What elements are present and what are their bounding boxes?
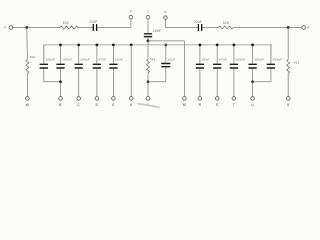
wire F to resistor: [13, 27, 60, 29]
svg-text:630: 630: [63, 21, 69, 25]
svg-text:15nF: 15nF: [153, 29, 161, 33]
terminal H: [302, 26, 310, 30]
wire cap to P corner: [97, 27, 131, 29]
wire N corner to cap: [165, 27, 197, 29]
resistor 6k2: [26, 55, 35, 73]
junction node bus/K: [130, 44, 133, 47]
wire L join to terminal: [147, 82, 149, 97]
svg-text:W: W: [26, 103, 29, 107]
svg-text:5k1: 5k1: [150, 57, 156, 61]
wire 6k2 to terminal W: [26, 73, 28, 96]
svg-text:100nF: 100nF: [273, 58, 283, 62]
capacitor 22nF (right series): [194, 20, 202, 31]
capacitor 47nF: [93, 58, 107, 69]
junction node bus@217.2: [216, 44, 219, 47]
junction node bus/10uF: [164, 44, 167, 47]
terminal T: [232, 97, 236, 107]
svg-text:P: P: [130, 10, 132, 14]
capacitor 22nF (left series): [89, 20, 97, 31]
terminal N: [164, 10, 168, 27]
capacitor 100nF: [267, 58, 283, 69]
resistor 630: [60, 21, 78, 29]
wire cap 100nF down: [270, 69, 272, 82]
capacitor 100nF: [40, 58, 56, 69]
capacitor 10uF: [161, 57, 175, 67]
wire H junction down: [287, 28, 289, 60]
capacitor 47nF: [213, 58, 227, 69]
svg-text:T: T: [233, 103, 235, 107]
junction node bus@233.9: [233, 44, 236, 47]
svg-text:47nF: 47nF: [219, 58, 227, 62]
junction node L join: [147, 80, 150, 83]
svg-text:C: C: [77, 103, 80, 107]
wire join corner from 10uF: [148, 68, 166, 82]
wire join corner from 270.9 to U: [253, 81, 271, 83]
junction node above 4k2: [287, 26, 290, 29]
terminal E: [112, 97, 116, 107]
svg-text:100nF: 100nF: [236, 58, 246, 62]
wire cap 100nF down: [60, 69, 62, 82]
wire cap 47nF down: [216, 69, 218, 97]
svg-text:N: N: [164, 10, 166, 14]
wire J line through bus to 5k1: [147, 41, 149, 59]
junction node above 6k2: [25, 26, 28, 29]
capacitor 15nF (J branch): [144, 29, 161, 37]
svg-text:6k2: 6k2: [30, 55, 36, 59]
wire bus to cap 100nF@60.5: [60, 45, 62, 64]
wire resistor to H: [233, 27, 302, 29]
resistor 5k1: [147, 57, 156, 73]
svg-text:22nF: 22nF: [89, 20, 97, 24]
terminal D: [95, 97, 99, 107]
terminal U: [251, 97, 255, 107]
wire join to terminal B: [60, 82, 62, 97]
wire cap to resistor: [202, 27, 218, 29]
wire bus to cap 100nF@252.6: [252, 45, 254, 64]
wire cap 100nF down: [43, 69, 45, 82]
wire bus to cap 100nF@78.7: [78, 45, 80, 64]
wire bus to cap 100nF@43.8: [43, 45, 45, 64]
svg-text:15nF: 15nF: [202, 58, 210, 62]
wire cap 100nF down: [78, 69, 80, 97]
svg-text:15nF: 15nF: [115, 58, 123, 62]
bus wire: [44, 44, 272, 46]
terminal A: [286, 97, 290, 107]
junction node U join: [251, 80, 254, 83]
wire M branch vertical: [183, 41, 185, 97]
terminal C: [77, 97, 81, 107]
capacitor 100nF: [75, 58, 91, 69]
wire join corner to B: [44, 81, 61, 83]
svg-text:22nF: 22nF: [194, 20, 202, 24]
bus right corner down: [270, 45, 273, 64]
wire 5k1 to L join: [147, 73, 149, 82]
link wire to M: [148, 40, 184, 42]
wire bus to cap 100nF@270.9: [270, 45, 272, 64]
svg-text:U: U: [251, 103, 254, 107]
junction node bus@96.9: [96, 44, 99, 47]
wire bus to cap 47nF@96.9: [96, 45, 98, 64]
capacitor 100nF: [56, 58, 72, 69]
svg-text:100nF: 100nF: [45, 58, 55, 62]
wire join to terminal U: [252, 82, 254, 97]
terminal P: [129, 10, 133, 28]
wire bus to cap 15nF@199.9: [199, 45, 201, 64]
svg-text:D: D: [96, 103, 99, 107]
wire cap 15nF down: [112, 69, 114, 97]
capacitor 15nF: [109, 58, 123, 69]
resistor 620: [219, 21, 234, 29]
svg-text:100nF: 100nF: [80, 58, 90, 62]
junction node B join: [59, 80, 62, 83]
terminal K: [129, 97, 133, 107]
junction node bus@199.9: [199, 44, 202, 47]
bus left corner down: [43, 45, 45, 64]
wire bus to cap 100nF@233.9: [233, 45, 235, 64]
terminal F: [4, 26, 12, 30]
junction node under 15nF: [147, 40, 150, 43]
terminal B: [59, 97, 63, 107]
svg-text:100nF: 100nF: [254, 58, 264, 62]
svg-text:M: M: [183, 103, 186, 107]
svg-text:4k2: 4k2: [294, 60, 300, 64]
junction node bus@113.4: [112, 44, 115, 47]
resistor 4k2: [287, 60, 300, 74]
junction node bus@252.6: [251, 44, 254, 47]
pencil smudge: [138, 104, 159, 108]
terminal S: [215, 97, 219, 107]
capacitor 100nF: [248, 58, 264, 69]
svg-text:10uF: 10uF: [167, 57, 175, 61]
svg-text:B: B: [59, 103, 61, 107]
svg-text:47nF: 47nF: [99, 58, 107, 62]
wire cap 15nF down: [199, 69, 201, 97]
wire bus to 10uF: [165, 45, 167, 63]
junction node bus@78.7: [77, 44, 80, 47]
svg-text:E: E: [112, 103, 114, 107]
wire bus to cap 15nF@113.4: [112, 45, 114, 64]
svg-text:J: J: [147, 10, 149, 14]
wire bus to cap 47nF@217.2: [216, 45, 218, 64]
wire cap 100nF down: [233, 69, 235, 97]
wire cap 47nF down: [96, 69, 98, 97]
terminal J: [146, 10, 150, 33]
svg-text:S: S: [216, 103, 218, 107]
terminal M: [183, 97, 187, 107]
terminal W: [26, 97, 30, 107]
wire cap 100nF down: [252, 69, 254, 82]
wire bus to terminal K: [130, 45, 132, 97]
wire cap to link node: [147, 37, 149, 41]
svg-text:H: H: [307, 26, 309, 30]
wire resistor to cap: [78, 27, 93, 29]
svg-text:R: R: [199, 103, 202, 107]
terminal R: [198, 97, 202, 107]
svg-text:F: F: [4, 26, 6, 30]
capacitor 100nF: [230, 58, 246, 69]
svg-text:100nF: 100nF: [62, 58, 72, 62]
svg-text:620: 620: [223, 21, 229, 25]
wire F junction down: [26, 28, 29, 60]
wire 4k2 to terminal A: [287, 73, 289, 96]
junction node bus@60.5: [59, 44, 62, 47]
terminal L: [146, 97, 150, 107]
capacitor 15nF: [196, 58, 210, 69]
